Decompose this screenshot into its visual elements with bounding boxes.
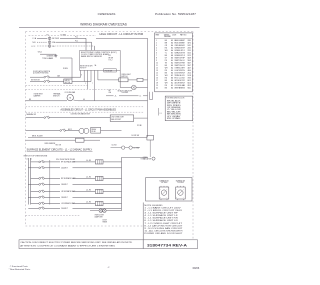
svg-text:09/06: 09/06 <box>193 266 200 270</box>
surface switch detail box <box>146 178 192 201</box>
svg-text:OVEN VENT: OVEN VENT <box>34 94 43 96</box>
svg-text:5307: 5307 <box>187 65 191 67</box>
svg-text:2100W 8": 2100W 8" <box>61 208 68 210</box>
svg-text:6415: 6415 <box>187 80 191 82</box>
main schematic dashed border left <box>25 32 27 226</box>
main schematic dashed border top <box>26 31 194 33</box>
surface element S13 left front coil <box>95 201 103 205</box>
svg-text:-7-: -7- <box>107 267 110 269</box>
svg-text:TERM. BLOCK: TERM. BLOCK <box>175 75 185 77</box>
wire latch motor to U1 pin <box>72 81 91 83</box>
svg-text:YL: YL <box>165 52 167 54</box>
svg-text:M: M <box>69 98 71 100</box>
wire N continues <box>56 41 92 43</box>
svg-text:DOOR: DOOR <box>103 220 107 222</box>
surface bus L1 vertical <box>27 158 29 205</box>
oven indicator DS1 <box>152 157 155 160</box>
oven light 2 relay box <box>110 115 134 122</box>
convection motor M3 windings <box>79 128 84 133</box>
oven light LP1 <box>132 85 137 90</box>
svg-text:ATTENTION: COUPER LE COURANT A: ATTENTION: COUPER LE COURANT AVANT D’EFF… <box>20 244 116 247</box>
svg-text:K1 BK: K1 BK <box>92 131 96 133</box>
svg-text:Publication No. 5995421287: Publication No. 5995421287 <box>155 12 197 16</box>
svg-text:3: 3 <box>156 45 157 47</box>
svg-text:1018: 1018 <box>187 75 191 77</box>
svg-text:8 IN. 2100W SW RF P30 BK: 8 IN. 2100W SW RF P30 BK <box>56 159 75 161</box>
door latch switch S1 <box>30 76 44 78</box>
svg-text:WH: WH <box>165 75 168 77</box>
svg-text:5: 5 <box>156 50 157 52</box>
svg-text:OVEN: OVEN <box>143 157 147 159</box>
surface element S11 right rear coil <box>95 176 103 180</box>
svg-text:P1: P1 <box>47 34 49 36</box>
svg-text:20: 20 <box>156 88 158 90</box>
caution note box <box>19 240 198 249</box>
svg-text:BU BLUE: BU BLUE <box>167 111 181 113</box>
surface unit switch S10 right front <box>31 161 39 163</box>
wire U1 to light switch <box>98 79 119 81</box>
svg-text:YL YELLOW: YL YELLOW <box>167 109 182 111</box>
svg-text:SWITCH LR: SWITCH LR <box>175 65 185 67</box>
svg-text:18: 18 <box>156 83 158 85</box>
component index table box <box>155 33 193 92</box>
svg-text:NOTE LEGEND: NOTE LEGEND <box>144 205 163 207</box>
wire S12 left rear element to bus <box>103 191 122 193</box>
svg-text:WH: WH <box>165 68 168 70</box>
svg-text:1: 1 <box>160 188 161 190</box>
svg-text:66: 66 <box>83 99 85 101</box>
svg-text:BK: BK <box>165 80 168 82</box>
svg-text:WH: WH <box>165 50 168 52</box>
svg-text:1: 1 <box>176 188 177 190</box>
svg-text:SWITCH LF: SWITCH LF <box>175 60 185 62</box>
svg-text:BK: BK <box>29 99 31 101</box>
wire row 96 <box>106 95 114 97</box>
svg-text:P3 P5 P7: P3 P5 P7 <box>80 68 86 70</box>
svg-text:BK AUTO SHUTOFF: BK AUTO SHUTOFF <box>118 89 132 92</box>
svg-text:WH WHITE: WH WHITE <box>167 103 181 105</box>
svg-text:3 - L1 SURFACE UNIT RF: 3 - L1 SURFACE UNIT RF <box>144 212 177 215</box>
svg-text:16: 16 <box>156 78 158 80</box>
wire to oven light <box>120 87 131 89</box>
svg-text:54A: 54A <box>57 75 60 78</box>
connector T1 on L1 <box>48 37 51 40</box>
wire socket to right bus <box>143 79 148 81</box>
caution note divider <box>142 240 144 249</box>
svg-text:OVEN SENSOR: OVEN SENSOR <box>175 45 185 47</box>
svg-text:PART NO.: PART NO. <box>180 33 187 36</box>
svg-text:BK: BK <box>165 73 168 75</box>
svg-text:P1-1: P1-1 <box>75 37 78 39</box>
svg-text:1300W 6": 1300W 6" <box>61 184 68 186</box>
wire EOC right side drop <box>119 70 121 87</box>
svg-text:L2 C: L2 C <box>32 46 36 48</box>
svg-text:EOC CLOCK: EOC CLOCK <box>175 78 185 80</box>
svg-text:8: 8 <box>156 57 157 59</box>
svg-text:L1: L1 <box>140 95 142 97</box>
svg-text:P12: P12 <box>109 55 112 57</box>
svg-text:12: 12 <box>156 68 158 70</box>
svg-text:2: 2 <box>167 188 168 190</box>
wire lamp drop from bus <box>121 208 123 210</box>
svg-text:OR: OR <box>165 45 168 47</box>
svg-text:2114: 2114 <box>188 73 191 75</box>
svg-text:OVEN DOOR: OVEN DOOR <box>95 214 105 216</box>
svg-text:17: 17 <box>156 80 158 82</box>
svg-text:N B: N B <box>33 42 37 44</box>
svg-text:P1-2: P1-2 <box>75 41 78 43</box>
svg-text:BK 12: BK 12 <box>68 129 72 131</box>
svg-text:BR: BR <box>165 42 168 44</box>
wire relay to right bus <box>134 117 148 119</box>
svg-text:PK: PK <box>165 60 168 62</box>
svg-text:2135: 2135 <box>187 47 191 49</box>
svg-text:RD: RD <box>165 47 168 49</box>
oven light switch S2 box <box>119 78 128 82</box>
svg-text:HIGH CIRCUIT - L1 CIRCUIT IN P: HIGH CIRCUIT - L1 CIRCUIT IN P6M <box>100 32 144 36</box>
svg-text:CAUTION: DISCONNECT ELECTRIC P: CAUTION: DISCONNECT ELECTRIC POWER BEFOR… <box>20 241 133 244</box>
svg-text:BK BLACK: BK BLACK <box>167 100 181 103</box>
svg-text:BK: BK <box>165 40 168 42</box>
svg-text:7: 7 <box>156 55 157 57</box>
door latch poles <box>30 81 44 83</box>
svg-text:RD RED: RD RED <box>167 105 181 107</box>
light socket J1 box <box>137 78 143 81</box>
surface switch S13 left front second pole <box>28 207 38 209</box>
clock lamp DS4 <box>122 146 125 149</box>
dashed separator bottom section <box>26 214 81 216</box>
svg-text:6410: 6410 <box>187 83 191 85</box>
svg-text:1325: 1325 <box>187 55 191 57</box>
svg-text:15: 15 <box>156 75 158 77</box>
svg-text:RD: RD <box>165 78 168 80</box>
relay K1 box <box>91 127 101 133</box>
svg-text:11: 11 <box>156 65 158 67</box>
svg-text:RELAY: RELAY <box>92 128 97 131</box>
svg-text:SWITCH: SWITCH <box>121 76 127 78</box>
svg-text:* Non-Illustrated Parts.: * Non-Illustrated Parts. <box>9 268 31 271</box>
wire door switch to indicator <box>149 140 151 157</box>
svg-text:BK: BK <box>109 90 111 92</box>
svg-text:BU: BU <box>165 55 167 57</box>
svg-text:5309: 5309 <box>187 57 191 59</box>
U1 pin stubs <box>80 70 82 73</box>
wire sensor to right <box>84 139 100 141</box>
svg-text:5: 5 <box>85 83 86 85</box>
main schematic dashed border right <box>192 32 194 240</box>
svg-text:RD: RD <box>165 85 168 87</box>
svg-text:2ND OVEN LIGHT: 2ND OVEN LIGHT <box>111 117 124 119</box>
svg-text:BROIL HI-LIMIT: BROIL HI-LIMIT <box>32 135 43 137</box>
surface right bus vertical <box>121 157 123 208</box>
svg-text:BK 200F: BK 200F <box>52 38 59 40</box>
svg-text:TO L2: TO L2 <box>109 60 113 62</box>
wire relay to bus <box>101 130 122 132</box>
svg-text:7 - L2 OVEN LIGHT CIRCUIT: 7 - L2 OVEN LIGHT CIRCUIT <box>144 223 182 225</box>
wire to latch motor <box>49 81 63 83</box>
svg-text:TO L2: TO L2 <box>141 159 145 161</box>
dashed separator above assembled title <box>26 106 145 108</box>
wire latch motor riser <box>71 58 73 79</box>
surface switch S10 top view <box>159 187 169 199</box>
svg-text:(LOCKED POSITION): (LOCKED POSITION) <box>33 73 49 75</box>
wire latch to U1 <box>49 76 80 78</box>
wire L1 feed to right bus <box>96 37 148 39</box>
svg-text:13: 13 <box>156 70 158 72</box>
wire surface feed top <box>122 156 149 158</box>
wire L1 continues to EOC <box>60 37 86 39</box>
wire stub below table <box>149 92 151 100</box>
svg-text:BK BR OR RD WH: BK BR OR RD WH <box>80 66 92 68</box>
svg-text:2585: 2585 <box>187 40 191 42</box>
clock lamp DS5 <box>129 146 132 149</box>
svg-text:ELECTRONIC OVEN CONTROL (EOC): ELECTRONIC OVEN CONTROL (EOC) <box>81 52 117 54</box>
svg-text:TOP VIEW: TOP VIEW <box>161 182 168 184</box>
svg-text:THERMAL SW: THERMAL SW <box>26 113 37 116</box>
svg-text:ASSEMBLED CIRCUIT - L1 CIRCUIT: ASSEMBLED CIRCUIT - L1 CIRCUIT P6M ASSEM… <box>61 108 117 111</box>
pin wire drops from U1 <box>80 73 82 77</box>
wire cooling fan row <box>26 100 48 102</box>
header rule <box>19 26 200 28</box>
svg-text:SWITCH TOP VIEW SHOWN: SWITCH TOP VIEW SHOWN <box>24 156 48 158</box>
wire door switch row <box>28 136 147 138</box>
svg-text:MOTOR: MOTOR <box>65 82 71 84</box>
svg-text:1325: 1325 <box>187 52 191 54</box>
surface element S12 left rear coil <box>95 189 103 193</box>
svg-text:A2: A2 <box>171 39 173 42</box>
motor switch S4 <box>60 130 62 132</box>
surface unit switch S13 left front <box>31 203 39 205</box>
svg-text:RD: RD <box>165 70 168 72</box>
svg-text:P17 BK WH: P17 BK WH <box>105 70 112 72</box>
svg-text:CONVECTION FAN MOTOR: CONVECTION FAN MOTOR <box>71 112 91 115</box>
svg-text:BR BROWN: BR BROWN <box>167 114 181 116</box>
svg-text:L1: L1 <box>160 113 162 115</box>
svg-text:98 MDL: 98 MDL <box>63 68 68 70</box>
svg-text:BK: BK <box>165 65 168 67</box>
surface element S10 right front coil <box>95 160 103 164</box>
svg-text:LATCH: LATCH <box>65 79 70 82</box>
svg-text:SURFACE SW: SURFACE SW <box>159 180 169 183</box>
svg-text:SURFACE SW: SURFACE SW <box>176 180 186 183</box>
svg-text:-10- RD: -10- RD <box>86 190 91 192</box>
main schematic dashed border bottom <box>26 225 145 227</box>
wire sensor row <box>26 139 76 141</box>
svg-text:6: 6 <box>156 52 157 54</box>
svg-text:2: 2 <box>183 188 184 190</box>
svg-text:GY: GY <box>165 57 167 59</box>
svg-text:P21 BK: P21 BK <box>137 125 142 127</box>
surface switch S11 right rear second pole <box>28 183 38 185</box>
svg-text:8: 8 <box>81 75 82 77</box>
title block divider vertical <box>142 203 144 249</box>
svg-text:RD: RD <box>52 46 55 48</box>
svg-text:OVEN SENSOR: OVEN SENSOR <box>44 143 56 145</box>
svg-text:-10- RD: -10- RD <box>86 160 91 162</box>
svg-text:9 HOURS: 9 HOURS <box>122 92 129 94</box>
svg-text:-10- RD: -10- RD <box>86 177 91 179</box>
svg-text:2135: 2135 <box>187 50 191 52</box>
svg-text:318047734 REV-A: 318047734 REV-A <box>147 243 188 247</box>
U1 connector P17 box <box>104 69 117 72</box>
oven lamp DS3 <box>103 209 107 213</box>
surface switch S12 left rear second pole <box>28 196 38 198</box>
svg-text:SWITCH RR: SWITCH RR <box>175 62 185 64</box>
wire clock lamps <box>111 147 122 149</box>
dashed separator assembled section <box>26 111 145 113</box>
svg-text:8112: 8112 <box>188 85 191 87</box>
door switch S5 box <box>147 135 154 140</box>
svg-text:WIRING DIAGRAM CWEF322AS: WIRING DIAGRAM CWEF322AS <box>80 23 127 27</box>
svg-text:10: 10 <box>156 62 158 64</box>
svg-text:-8-: -8- <box>115 95 117 97</box>
surface unit switch S12 left rear <box>31 191 39 193</box>
svg-text:THERMAL: THERMAL <box>53 93 61 96</box>
svg-text:WH: WH <box>165 83 168 85</box>
svg-text:BAKE ELEMENT: BAKE ELEMENT <box>175 39 185 42</box>
svg-text:CHASSIS (G): CHASSIS (G) <box>47 55 57 58</box>
wire lamps row <box>90 210 99 212</box>
wire convection row <box>26 117 44 119</box>
electronic oven control U1 box <box>80 50 121 70</box>
latch motor M1 box <box>64 79 72 84</box>
svg-text:CODE: CODE <box>172 34 176 36</box>
svg-text:TOP VIEW: TOP VIEW <box>177 182 184 184</box>
svg-text:2: 2 <box>156 42 157 44</box>
svg-text:9001: 9001 <box>187 88 191 90</box>
wire S10 right front element to bus <box>103 161 122 163</box>
svg-text:GN-1: GN-1 <box>38 52 42 54</box>
svg-text:19: 19 <box>156 85 158 87</box>
svg-text:3075: 3075 <box>187 42 191 44</box>
svg-text:TN: TN <box>165 62 167 64</box>
table rows <box>155 37 193 39</box>
svg-text:HINGE: HINGE <box>103 222 108 224</box>
wire light switch to socket <box>128 79 137 81</box>
wire motor row <box>26 130 60 132</box>
surface switch S10 right front second pole <box>28 167 38 169</box>
connector T2 on N <box>48 41 51 44</box>
svg-text:WH: WH <box>109 92 112 94</box>
svg-text:OVEN LIGHT: OVEN LIGHT <box>175 68 185 70</box>
svg-text:WIRING: WIRING <box>164 34 170 36</box>
dashed separator vent section <box>26 88 121 90</box>
svg-text:PART: PART <box>156 33 160 36</box>
oven lamp DS2 <box>99 209 103 213</box>
svg-text:CWEF322AS: CWEF322AS <box>98 12 116 16</box>
svg-text:4: 4 <box>156 47 157 49</box>
svg-text:SWITCH RF: SWITCH RF <box>175 57 185 59</box>
svg-text:PK PINK: PK PINK <box>167 118 181 120</box>
svg-text:BK: BK <box>165 88 168 90</box>
svg-text:-10- RD: -10- RD <box>86 202 91 204</box>
svg-text:5309: 5309 <box>187 60 191 62</box>
svg-text:OVEN LIGHT: OVEN LIGHT <box>121 74 130 76</box>
svg-text:1091: 1091 <box>187 45 191 47</box>
wire S13 left front element to bus <box>103 203 122 205</box>
svg-text:BROIL ELEMENT: BROIL ELEMENT <box>175 42 185 44</box>
dashed separator latch section <box>26 84 89 86</box>
surface bus L2 vertical <box>30 158 32 205</box>
svg-text:DOOR SWITCH: DOOR SWITCH <box>175 73 185 75</box>
svg-text:5307: 5307 <box>187 62 191 64</box>
svg-text:4440: 4440 <box>187 70 191 72</box>
svg-text:BK WH: BK WH <box>109 57 114 59</box>
svg-text:9: 9 <box>156 60 157 62</box>
wire L2 continues <box>56 45 95 47</box>
cooling fan motor M2 <box>67 94 73 100</box>
wire S11 right rear element to bus <box>103 177 122 179</box>
svg-text:5A: 5A <box>95 64 97 67</box>
svg-text:CLOCK: CLOCK <box>112 144 117 146</box>
svg-text:L1: L1 <box>26 158 28 160</box>
svg-text:4457: 4457 <box>187 68 191 70</box>
surface switch S11 top view <box>176 187 186 199</box>
svg-text:FOR THIS DWG W COLOR: FOR THIS DWG W COLOR <box>166 98 184 100</box>
svg-text:SWITCH: SWITCH <box>53 95 60 97</box>
svg-text:1300W 6": 1300W 6" <box>61 197 68 199</box>
svg-text:WH: WH <box>52 42 56 44</box>
svg-text:14: 14 <box>156 73 158 75</box>
svg-text:2100W 8": 2100W 8" <box>61 168 68 170</box>
surface mid bus vertical <box>49 160 51 205</box>
connector T3 on L2 <box>48 45 51 48</box>
inner dashed separator top <box>29 34 97 36</box>
svg-text:1: 1 <box>156 40 157 42</box>
svg-text:COOLING FAN: COOLING FAN <box>65 91 76 94</box>
svg-text:2 - L1 BROIL CIRCUIT 240V: 2 - L1 BROIL CIRCUIT 240V <box>144 210 184 212</box>
surface unit switch S11 right rear <box>31 177 39 179</box>
svg-text:L1 A: L1 A <box>33 37 37 40</box>
wire color code box <box>165 96 193 121</box>
svg-text:7: 7 <box>92 83 93 85</box>
svg-text:8 - L2 LATCH MOTOR CIRCUIT: 8 - L2 LATCH MOTOR CIRCUIT <box>144 224 182 227</box>
svg-text:LIGHT SWITCH: LIGHT SWITCH <box>175 70 185 72</box>
svg-text:SURFACE ELEMENT CIRCUITS - L1: SURFACE ELEMENT CIRCUITS - L1 - L2 240VA… <box>27 149 93 152</box>
oven sensor RTD box <box>76 138 85 142</box>
svg-text:DOOR LATCH SWITCH: DOOR LATCH SWITCH <box>33 70 51 73</box>
svg-text:RTD OR: RTD OR <box>56 145 61 147</box>
convection thermal switch S3 <box>44 117 46 119</box>
svg-text:7533: 7533 <box>187 78 191 80</box>
svg-text:© Functional Parts: © Functional Parts <box>10 265 29 268</box>
svg-text:DOOR SW: DOOR SW <box>132 135 140 137</box>
